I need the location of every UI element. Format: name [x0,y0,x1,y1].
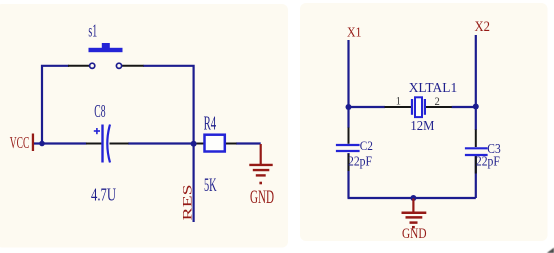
svg-text:RES: RES [180,184,194,220]
svg-text:2: 2 [435,96,441,108]
svg-text:R4: R4 [204,113,217,135]
svg-text:X1: X1 [347,25,362,40]
svg-text:GND: GND [250,188,274,208]
svg-text:1: 1 [396,95,401,107]
svg-text:GND: GND [402,226,427,242]
svg-text:22pF: 22pF [476,153,500,168]
svg-text:5K: 5K [204,175,217,196]
svg-text:C8: C8 [94,101,105,121]
svg-text:C2: C2 [360,138,373,153]
svg-text:4.7U: 4.7U [91,185,116,205]
svg-text:X2: X2 [475,19,491,35]
svg-text:VCC: VCC [10,133,30,152]
svg-text:s1: s1 [88,21,97,41]
svg-text:12M: 12M [410,119,434,134]
svg-text:22pF: 22pF [348,153,372,168]
svg-text:XLTAL1: XLTAL1 [409,80,458,95]
